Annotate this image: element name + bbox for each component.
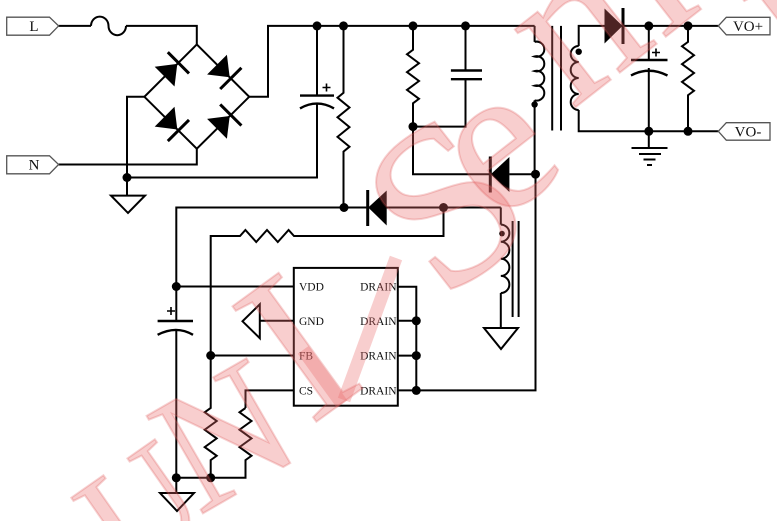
bridge diamond wires bbox=[144, 44, 249, 148]
wire L to bridge top bbox=[126, 26, 197, 45]
diode D3 VDD bbox=[368, 190, 387, 226]
resistor R3 output bbox=[682, 26, 694, 131]
IC U1 pin labels bbox=[299, 282, 397, 398]
bridge diode D4 (left to top) bbox=[155, 52, 189, 86]
ground symbol (aux winding) bbox=[484, 328, 518, 349]
wire GND pin bbox=[260, 320, 294, 322]
wire clamp to diode D1 bbox=[413, 127, 490, 175]
capacitor C4 stubs bbox=[175, 287, 177, 322]
wire CS to IC bbox=[246, 390, 294, 408]
wire D1 to primary bottom bbox=[509, 173, 535, 175]
capacitor C1 plates bbox=[300, 96, 334, 109]
wire bridge right to top rail bbox=[249, 26, 534, 97]
transformer T1 primary stubs bbox=[534, 26, 536, 42]
capacitor C3 stub bbox=[648, 26, 650, 60]
bridge diode D6 (left to bottom) bbox=[155, 107, 189, 141]
phase dot secondary bbox=[576, 49, 582, 55]
capacitor C3 plates bbox=[631, 60, 668, 76]
terminal VO- flag bbox=[718, 123, 770, 141]
bridge diode D5 (top to right) bbox=[207, 55, 241, 89]
fuse F1 bbox=[91, 17, 126, 36]
wire bridge left to ground node bbox=[127, 97, 144, 178]
terminal VO+ flag bbox=[718, 17, 770, 35]
aux winding stub top bbox=[500, 208, 502, 225]
earth ground stub bbox=[648, 131, 650, 148]
phase dot primary bbox=[531, 101, 537, 107]
capacitor C2 plates bbox=[451, 71, 482, 80]
ground stub bbox=[126, 178, 128, 196]
wire N to bridge bottom bbox=[59, 149, 197, 165]
wire drain vertical bbox=[416, 174, 535, 390]
capacitor C3 plus bbox=[652, 49, 660, 57]
IC U1 body bbox=[294, 268, 398, 406]
capacitor C2 stubs bbox=[465, 26, 467, 71]
terminal N flag bbox=[7, 156, 59, 174]
diode D2 output bbox=[605, 8, 624, 44]
wire VDD to IC bbox=[176, 286, 293, 288]
svg-text:N: N bbox=[29, 158, 40, 174]
wire FB to IC bbox=[211, 355, 294, 357]
ground symbol (bottom left) bbox=[160, 493, 194, 511]
ground arrow (IC GND pin) bbox=[243, 304, 260, 338]
svg-text:VDD: VDD bbox=[299, 282, 324, 294]
transformer T1 primary winding bbox=[535, 42, 545, 101]
svg-text:L: L bbox=[29, 19, 38, 35]
capacitor C1 plus bbox=[323, 84, 331, 92]
terminal L wire bbox=[59, 25, 91, 27]
bridge diode D7 (bottom to right) bbox=[207, 104, 241, 138]
aux winding stub bottom to ground bbox=[500, 293, 502, 328]
terminal L flag bbox=[7, 17, 59, 35]
transformer T1 secondary winding bbox=[571, 46, 579, 110]
capacitor C4 plates bbox=[158, 321, 193, 335]
wire D2 to VO+ bbox=[623, 25, 718, 27]
VDD wire from aux bbox=[176, 208, 501, 287]
transformer T1 core bbox=[551, 26, 553, 131]
resistor R6 CS bbox=[211, 408, 252, 478]
svg-text:VO-: VO- bbox=[735, 124, 762, 140]
wire bottom ground bbox=[176, 478, 210, 493]
ground symbol (AC input) bbox=[111, 196, 145, 213]
drain bus bbox=[398, 287, 417, 391]
resistor R2 snubber bbox=[407, 26, 419, 127]
capacitor C4 plus bbox=[167, 307, 175, 315]
wire feedback R4 bbox=[211, 208, 444, 356]
diode D1 clamp bbox=[490, 157, 509, 193]
aux core bbox=[512, 221, 514, 317]
resistor R5 FB bbox=[205, 356, 217, 478]
resistor R1 startup bbox=[338, 26, 350, 208]
wire ground rail bbox=[127, 104, 317, 178]
phase dot aux bbox=[499, 231, 505, 237]
capacitor C1 stub bbox=[316, 26, 318, 96]
transformer T1 aux winding bbox=[501, 225, 510, 293]
earth ground (output) bbox=[632, 148, 668, 165]
secondary stubs bbox=[579, 26, 605, 46]
